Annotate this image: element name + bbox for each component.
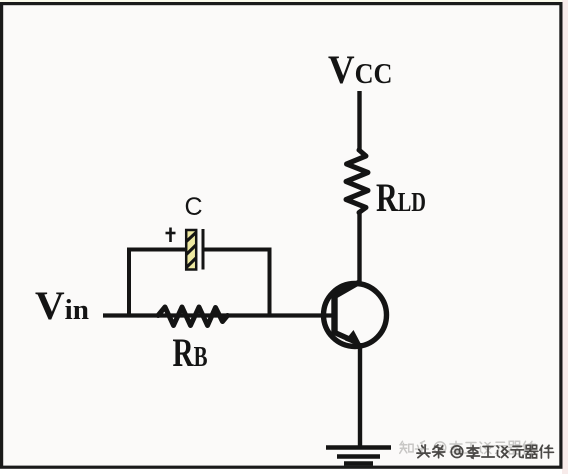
svg-text:C: C (185, 193, 203, 221)
